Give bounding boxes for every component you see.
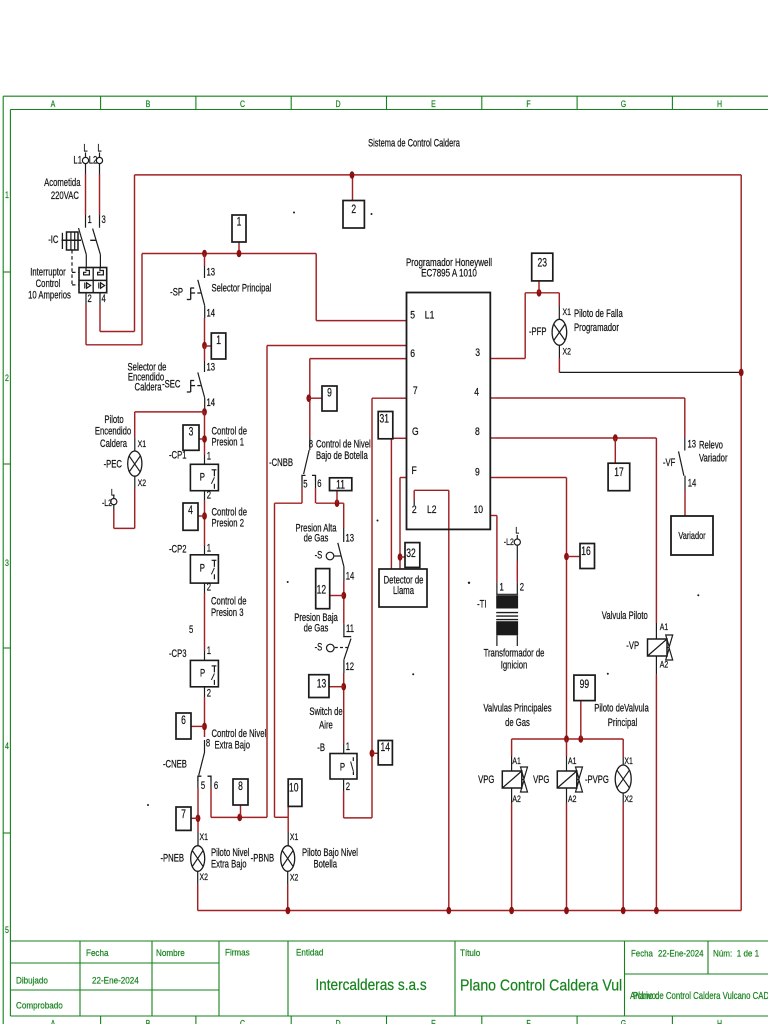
svg-text:Presion 3: Presion 3 xyxy=(211,607,244,620)
programmer U1 Honeywell EC7895 xyxy=(407,293,491,530)
svg-text:2: 2 xyxy=(207,489,211,502)
svg-text:-CNBB: -CNBB xyxy=(269,457,293,470)
svg-text:L2: L2 xyxy=(427,504,437,516)
svg-text:3: 3 xyxy=(102,214,106,227)
folio ref 3 xyxy=(183,425,199,450)
wire pin2 L2 return xyxy=(413,500,415,505)
svg-text:A2: A2 xyxy=(568,793,577,804)
svg-text:-CP3: -CP3 xyxy=(169,648,187,661)
wire stub box7 xyxy=(191,817,198,819)
wire L2 top bus y175 xyxy=(135,174,742,176)
folio ref 7 xyxy=(176,807,191,830)
svg-text:Comprobado: Comprobado xyxy=(16,1000,63,1011)
wire pin3 to PFP xyxy=(490,358,496,360)
svg-text:-PVPG: -PVPG xyxy=(585,774,609,787)
svg-text:5: 5 xyxy=(5,925,9,935)
folio ref 4 xyxy=(183,503,198,530)
folio ref 32 xyxy=(405,543,420,568)
svg-text:2: 2 xyxy=(351,204,356,217)
svg-text:6: 6 xyxy=(214,780,218,793)
wire pin4 to VF relay xyxy=(490,397,496,399)
svg-text:C: C xyxy=(240,99,245,109)
svg-text:1: 1 xyxy=(207,645,211,658)
wire stub box1 mid xyxy=(205,345,212,347)
svg-text:Núm: 1 de 1: Núm: 1 de 1 xyxy=(713,948,759,959)
svg-text:14: 14 xyxy=(380,742,390,755)
svg-text:-L2: -L2 xyxy=(102,497,112,508)
stray dots xyxy=(293,212,295,214)
svg-text:13: 13 xyxy=(688,438,697,451)
svg-text:de Gas: de Gas xyxy=(304,532,329,545)
svg-text:9: 9 xyxy=(327,387,332,400)
svg-text:P: P xyxy=(340,761,345,774)
svg-text:Llama: Llama xyxy=(393,585,415,598)
solenoid valve VPG 2 xyxy=(557,771,577,788)
svg-text:X1: X1 xyxy=(290,831,299,842)
svg-text:Sistema de Control Caldera: Sistema de Control Caldera xyxy=(368,136,460,149)
svg-text:-PFP: -PFP xyxy=(529,326,547,339)
svg-text:Relevo: Relevo xyxy=(699,439,723,452)
wire stub box3 xyxy=(199,438,205,440)
svg-text:Dibujado: Dibujado xyxy=(16,975,48,986)
svg-text:E: E xyxy=(431,99,436,109)
svg-text:P: P xyxy=(200,471,205,484)
wire CNBB pin5 to box10 lamp PBNB xyxy=(301,480,303,488)
wire VPG1 drop xyxy=(511,739,513,756)
svg-text:-PBNB: -PBNB xyxy=(251,852,275,865)
svg-text:Firmas: Firmas xyxy=(225,947,250,958)
svg-text:31: 31 xyxy=(380,413,390,426)
solenoid valve VPG 1 xyxy=(502,771,522,788)
svg-text:X2: X2 xyxy=(138,477,147,488)
folio ref 23 xyxy=(532,253,553,281)
svg-text:Piloto deValvula: Piloto deValvula xyxy=(594,702,649,715)
svg-text:X2: X2 xyxy=(200,871,209,882)
terminal -L2 (left) xyxy=(113,495,115,499)
wire stub box17 xyxy=(614,438,616,463)
air pressure switch -B xyxy=(330,754,357,780)
svg-text:Botella: Botella xyxy=(314,858,338,871)
wire stub box32 xyxy=(400,556,405,558)
svg-text:2: 2 xyxy=(5,373,9,383)
svg-text:2: 2 xyxy=(207,687,211,700)
folio ref 8 xyxy=(233,779,248,805)
svg-text:10 Amperios: 10 Amperios xyxy=(28,289,71,302)
ignition transformer -TI xyxy=(496,594,518,646)
pressure switch -CP2 xyxy=(190,555,218,583)
svg-text:X2: X2 xyxy=(290,871,299,882)
svg-text:4: 4 xyxy=(102,293,106,306)
wire stub box16 xyxy=(567,556,581,558)
folio ref 2 xyxy=(343,201,364,229)
svg-text:Ignicion: Ignicion xyxy=(501,659,528,672)
svg-text:14: 14 xyxy=(207,397,216,410)
wire PVPG drop xyxy=(622,739,624,757)
wire CNEB pin6 return to pin6 programmer xyxy=(210,781,212,788)
svg-text:7: 7 xyxy=(413,385,418,397)
folio ref 1 (mid) xyxy=(211,333,226,359)
svg-text:L: L xyxy=(97,142,101,155)
level switch -CNEB xyxy=(198,752,211,781)
wire stub box4 xyxy=(198,515,205,517)
svg-text:3: 3 xyxy=(5,558,9,568)
svg-text:-VF: -VF xyxy=(663,457,676,470)
svg-text:2: 2 xyxy=(412,504,417,516)
wire pin9 to gas valve bus xyxy=(490,477,496,479)
wire pin8 to VP valve xyxy=(490,437,496,439)
svg-text:X1: X1 xyxy=(200,831,209,842)
wire SP selector chain xyxy=(204,254,206,267)
svg-text:2: 2 xyxy=(207,581,211,594)
svg-text:L: L xyxy=(515,524,519,535)
svg-text:Caldera: Caldera xyxy=(135,381,163,394)
svg-text:G: G xyxy=(412,426,419,438)
svg-text:14: 14 xyxy=(207,307,216,320)
svg-text:1: 1 xyxy=(216,335,221,348)
svg-text:X1: X1 xyxy=(563,306,572,317)
terminal L1 xyxy=(85,153,87,158)
wire bottom L2 bus y910 xyxy=(198,910,742,912)
svg-text:22-Ene-2024: 22-Ene-2024 xyxy=(658,948,704,959)
svg-text:-CP2: -CP2 xyxy=(169,543,187,556)
svg-text:EC7895 A 1010: EC7895 A 1010 xyxy=(421,267,477,280)
svg-text:1: 1 xyxy=(237,216,242,229)
svg-text:-PNEB: -PNEB xyxy=(160,852,184,865)
svg-text:2: 2 xyxy=(88,293,92,306)
svg-text:Intercalderas s.a.s: Intercalderas s.a.s xyxy=(315,977,426,994)
wire CP chain vertical xyxy=(204,412,206,455)
svg-text:P: P xyxy=(200,667,205,680)
svg-text:Entidad: Entidad xyxy=(296,947,324,958)
svg-text:G: G xyxy=(621,1019,626,1024)
folio ref 14 xyxy=(378,741,392,765)
svg-text:6: 6 xyxy=(410,348,415,360)
wire stub box12 xyxy=(330,595,344,597)
wire SEC to PEC lamp xyxy=(135,411,205,413)
wire -B to pin7 programmer xyxy=(343,779,345,791)
wire stub box6 xyxy=(191,725,205,727)
svg-text:VPG: VPG xyxy=(533,774,549,787)
svg-text:8: 8 xyxy=(309,438,313,451)
svg-text:3: 3 xyxy=(475,347,480,359)
pressure switch -CP3 xyxy=(190,660,218,686)
svg-text:10: 10 xyxy=(289,782,299,795)
pilot lamp -PEC xyxy=(128,451,142,476)
svg-text:P: P xyxy=(200,562,205,575)
svg-text:F: F xyxy=(412,465,417,477)
wire right L2 bus x741 xyxy=(740,175,742,911)
svg-text:Acometida: Acometida xyxy=(44,177,81,190)
node SP feed xyxy=(202,250,207,258)
wire bus to programmer pin5 xyxy=(315,254,317,321)
svg-text:Valvulas Principales: Valvulas Principales xyxy=(483,702,551,715)
svg-text:de Gas: de Gas xyxy=(304,622,329,635)
svg-text:de Gas: de Gas xyxy=(505,717,530,730)
wire stub box9 xyxy=(309,397,322,399)
svg-text:Fecha: Fecha xyxy=(86,948,109,959)
svg-text:X2: X2 xyxy=(563,345,572,356)
wire stub box23 xyxy=(538,281,540,293)
svg-text:E: E xyxy=(431,1019,436,1024)
svg-text:Plano de Control Caldera Vulca: Plano de Control Caldera Vulcano CAD xyxy=(633,990,768,1001)
svg-text:12: 12 xyxy=(346,661,355,674)
svg-text:A1: A1 xyxy=(512,755,521,766)
svg-text:5: 5 xyxy=(303,478,307,491)
wire stub box8 xyxy=(240,805,242,817)
svg-text:5: 5 xyxy=(201,780,205,793)
folio ref 12 xyxy=(316,569,330,609)
svg-text:-S: -S xyxy=(315,641,323,654)
svg-text:D: D xyxy=(335,99,340,109)
pilot lamp -PNEB xyxy=(191,846,205,872)
title block xyxy=(10,941,768,1016)
svg-text:-IC: -IC xyxy=(48,234,58,247)
svg-text:14: 14 xyxy=(346,570,355,583)
svg-text:1: 1 xyxy=(207,542,211,555)
svg-text:13: 13 xyxy=(346,532,355,545)
svg-text:F: F xyxy=(526,1019,530,1024)
svg-text:Programador: Programador xyxy=(574,322,619,335)
wire stub box13 xyxy=(329,686,344,688)
svg-text:L: L xyxy=(83,142,87,155)
folio ref 13 xyxy=(309,675,329,698)
svg-text:Presion 2: Presion 2 xyxy=(212,517,245,530)
svg-text:Principal: Principal xyxy=(608,717,638,730)
wire pin G to detector xyxy=(391,437,406,439)
svg-text:17: 17 xyxy=(614,467,624,480)
svg-text:Plano Control Caldera Vul: Plano Control Caldera Vul xyxy=(460,977,622,995)
folio ref 31 xyxy=(378,412,393,439)
wire -L2 terminal to transformer pin2 xyxy=(516,545,518,561)
svg-text:Extra Bajo: Extra Bajo xyxy=(211,858,246,871)
svg-text:-SP: -SP xyxy=(170,286,183,299)
wire CNEB pin5 to PNEB lamp xyxy=(197,780,199,788)
wire CNBB pin6 gas chain xyxy=(315,480,317,488)
svg-text:Piloto de Falla: Piloto de Falla xyxy=(574,308,623,321)
svg-text:VPG: VPG xyxy=(478,774,494,787)
wire PFP X2 black return xyxy=(558,345,560,358)
wire pin F to detector xyxy=(400,477,407,479)
svg-text:Valvula Piloto: Valvula Piloto xyxy=(602,610,648,623)
svg-text:14: 14 xyxy=(688,477,697,490)
folio ref 1 (top) xyxy=(232,215,246,242)
svg-text:2: 2 xyxy=(520,581,524,594)
svg-text:B: B xyxy=(146,1019,151,1024)
svg-text:L1: L1 xyxy=(425,310,435,322)
svg-text:220VAC: 220VAC xyxy=(51,190,79,203)
svg-text:6: 6 xyxy=(181,715,186,728)
pilot lamp -PVPG xyxy=(615,765,631,793)
svg-text:2: 2 xyxy=(346,781,350,794)
level switch -CNBB xyxy=(302,450,316,480)
svg-text:B: B xyxy=(146,99,151,109)
wire L1 acometida drop xyxy=(85,164,87,174)
svg-text:1: 1 xyxy=(88,214,92,227)
svg-text:-VP: -VP xyxy=(626,640,639,653)
wire breaker pin2 to bus riser xyxy=(85,293,87,305)
svg-text:5: 5 xyxy=(189,624,193,637)
svg-text:-S: -S xyxy=(315,549,323,562)
wire L1 control bus y253 xyxy=(142,253,316,255)
circuit breaker -IC xyxy=(62,228,107,293)
gas pressure switch -S alta xyxy=(326,543,344,567)
svg-text:X1: X1 xyxy=(138,438,147,449)
folio ref 9 xyxy=(322,386,337,411)
svg-text:L2: L2 xyxy=(89,154,98,167)
svg-text:6: 6 xyxy=(317,478,321,491)
wire breaker pin4 riser xyxy=(99,293,101,305)
svg-text:23: 23 xyxy=(537,257,547,270)
svg-text:11: 11 xyxy=(346,623,354,636)
wire VPG2 drop xyxy=(566,739,568,756)
svg-text:Nombre: Nombre xyxy=(156,948,185,959)
svg-text:-B: -B xyxy=(317,742,325,755)
svg-text:Encendido: Encendido xyxy=(95,425,131,438)
svg-text:A2: A2 xyxy=(512,793,521,804)
svg-text:A1: A1 xyxy=(660,621,669,632)
svg-text:8: 8 xyxy=(475,426,480,438)
wire SP to SEC xyxy=(204,346,206,362)
svg-text:4: 4 xyxy=(188,505,193,518)
wire PEC lamp to -L2 terminal xyxy=(134,476,136,488)
svg-text:4: 4 xyxy=(5,741,9,751)
svg-text:16: 16 xyxy=(581,546,591,559)
folio ref 99 xyxy=(574,675,595,701)
svg-text:G: G xyxy=(621,99,626,109)
terminal -L2 (transformer) xyxy=(516,535,518,539)
svg-text:1: 1 xyxy=(346,741,350,754)
svg-text:Fecha: Fecha xyxy=(631,948,653,959)
gas pressure switch -S baja xyxy=(327,637,352,660)
svg-text:-SEC: -SEC xyxy=(162,378,180,391)
wire gas valves bus y739 xyxy=(512,738,624,740)
solenoid valve -VP xyxy=(648,639,668,656)
svg-text:1: 1 xyxy=(5,190,9,200)
svg-text:F: F xyxy=(526,99,530,109)
folio ref 17 xyxy=(608,463,630,491)
svg-text:L1: L1 xyxy=(73,154,82,167)
svg-text:Aire: Aire xyxy=(319,719,333,732)
box Variador xyxy=(671,516,713,555)
svg-text:-CP1: -CP1 xyxy=(169,449,187,462)
folio ref 11 xyxy=(330,478,352,491)
folio ref 10 xyxy=(288,779,302,806)
svg-text:Extra Bajo: Extra Bajo xyxy=(215,739,250,752)
svg-text:7: 7 xyxy=(181,809,186,822)
folio ref 16 xyxy=(580,544,595,569)
svg-text:-PEC: -PEC xyxy=(104,458,122,471)
svg-text:-TI: -TI xyxy=(477,598,486,611)
pilot lamp -PBNB xyxy=(281,846,295,872)
svg-text:X2: X2 xyxy=(624,793,633,804)
svg-text:Switch de: Switch de xyxy=(309,706,342,719)
svg-text:22-Ene-2024: 22-Ene-2024 xyxy=(92,975,139,986)
svg-text:-CNEB: -CNEB xyxy=(163,758,187,771)
relay contact -VF xyxy=(679,451,684,475)
svg-text:Selector Principal: Selector Principal xyxy=(212,282,272,295)
svg-text:-L2: -L2 xyxy=(504,536,514,547)
svg-text:5: 5 xyxy=(410,310,415,322)
svg-text:D: D xyxy=(335,1019,340,1024)
svg-text:3: 3 xyxy=(189,426,194,439)
svg-text:11: 11 xyxy=(336,479,345,492)
wire stub box2 xyxy=(352,175,354,201)
svg-text:1: 1 xyxy=(500,581,504,594)
svg-text:10: 10 xyxy=(474,504,484,516)
svg-text:9: 9 xyxy=(475,467,480,479)
wire stub box11 xyxy=(336,491,338,504)
wire stub box14 xyxy=(372,752,378,754)
pressure switch -CP1 xyxy=(190,464,218,490)
box Detector de Llama xyxy=(379,569,427,607)
svg-text:32: 32 xyxy=(406,548,416,561)
svg-text:Presion 1: Presion 1 xyxy=(212,436,245,449)
svg-text:H: H xyxy=(717,1019,722,1024)
svg-text:13: 13 xyxy=(207,361,216,374)
folio ref 6 xyxy=(176,713,191,739)
svg-text:Caldera: Caldera xyxy=(100,438,128,451)
svg-text:1: 1 xyxy=(207,450,211,463)
svg-text:A1: A1 xyxy=(568,755,577,766)
svg-text:13: 13 xyxy=(207,266,216,279)
pilot lamp -PFP xyxy=(552,319,567,345)
svg-text:4: 4 xyxy=(474,386,479,398)
svg-text:12: 12 xyxy=(317,585,327,598)
wire pin10 to transformer xyxy=(490,515,497,517)
svg-text:Título: Título xyxy=(460,948,480,959)
svg-text:A2: A2 xyxy=(660,658,669,669)
terminal L2 xyxy=(99,153,101,158)
svg-text:C: C xyxy=(240,1019,245,1024)
svg-text:A: A xyxy=(51,99,56,109)
svg-text:8: 8 xyxy=(238,781,243,794)
wire stub box1 top xyxy=(238,242,240,254)
svg-text:13: 13 xyxy=(317,678,327,691)
wire L2 acometida drop xyxy=(99,164,101,174)
svg-text:H: H xyxy=(717,99,722,109)
svg-text:A: A xyxy=(51,1019,56,1024)
svg-text:Bajo de Botella: Bajo de Botella xyxy=(316,450,368,463)
svg-text:99: 99 xyxy=(580,679,590,692)
svg-text:X1: X1 xyxy=(624,755,633,766)
switch -SP selector principal xyxy=(187,280,205,306)
wire pin6 second branch to CNBB xyxy=(310,358,407,360)
svg-text:8: 8 xyxy=(206,737,210,750)
wire VF to variador xyxy=(684,476,686,490)
switch -SEC selector encendido xyxy=(187,372,205,398)
wire stub box99 xyxy=(580,701,582,739)
svg-text:Variador: Variador xyxy=(699,452,728,465)
svg-text:Variador: Variador xyxy=(678,530,705,542)
